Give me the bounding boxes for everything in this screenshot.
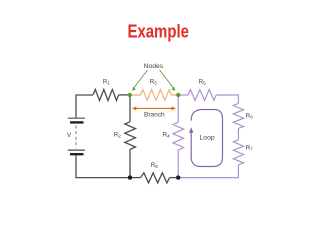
resistor R3 lead right xyxy=(171,94,178,96)
svg-text:Loop: Loop xyxy=(200,134,215,141)
svg-text:R8: R8 xyxy=(151,162,158,169)
resistor R7 (purple) xyxy=(233,140,243,165)
wire bottom rail right (purple) xyxy=(178,177,239,179)
resistor R6 (purple) xyxy=(233,103,243,128)
node A (green dot) xyxy=(128,93,132,97)
svg-text:Branch: Branch xyxy=(144,112,165,119)
wire node A bottom lead to R8 xyxy=(130,177,141,179)
svg-text:R3: R3 xyxy=(150,79,157,86)
battery V cell 1 plate thick xyxy=(70,121,84,123)
junction dot bottom-left xyxy=(128,175,132,179)
loop arrowhead xyxy=(189,127,193,133)
battery internal dashed link xyxy=(75,126,77,149)
svg-text:R5: R5 xyxy=(199,79,206,86)
svg-text:R6: R6 xyxy=(246,112,253,119)
branch arrow (orange, double-headed) xyxy=(135,107,172,109)
svg-text:Nodes: Nodes xyxy=(144,63,164,70)
wire node B vertical lower (purple, R4 to bottom rail) xyxy=(177,150,179,178)
wire middle vertical upper (node A to R2) xyxy=(129,95,131,122)
junction dot bottom-right xyxy=(176,175,180,179)
wire middle vertical lower (R2 to bottom rail) xyxy=(129,149,131,177)
svg-text:V: V xyxy=(67,132,72,139)
resistor R2 xyxy=(125,122,136,150)
node B (green dot) xyxy=(176,93,180,97)
resistor R5 (purple) xyxy=(188,90,216,101)
wire left vertical bottom (battery to bottom rail) xyxy=(75,155,77,178)
resistor R1 xyxy=(93,89,119,100)
wire R1 to node A xyxy=(119,94,130,96)
svg-text:R2: R2 xyxy=(114,132,121,139)
svg-text:Example: Example xyxy=(128,20,189,41)
wire left vertical top (to battery) xyxy=(75,95,77,118)
resistor R3 (orange) xyxy=(141,90,172,101)
svg-text:R1: R1 xyxy=(103,78,110,85)
resistor R8 xyxy=(141,173,170,183)
wire top-left horizontal (battery top to R1) xyxy=(76,94,93,96)
svg-text:R7: R7 xyxy=(246,145,253,152)
wire R8 to right junction xyxy=(170,177,179,179)
wire R5 to right corner (purple) xyxy=(216,94,238,96)
battery V cell 1 plate long xyxy=(68,117,85,119)
wire right vertical lower (purple) xyxy=(237,165,239,178)
resistor R3 (orange) lead left xyxy=(130,94,141,96)
battery V cell 2 plate thick xyxy=(70,153,84,155)
battery V cell 2 plate long xyxy=(68,149,85,151)
svg-text:R4: R4 xyxy=(163,132,170,139)
wire right vertical upper (purple) xyxy=(237,95,239,104)
wire bottom rail left xyxy=(76,177,131,179)
loop arrow (purple rounded loop) xyxy=(191,110,222,167)
wire right vertical middle (purple) xyxy=(237,128,239,139)
resistor R4 (purple) xyxy=(173,122,184,150)
wire node B vertical upper (purple, to R4) xyxy=(177,95,179,122)
nodes arrow left (green) xyxy=(134,70,148,88)
wire node B to R5 (purple) xyxy=(178,94,188,96)
nodes arrow right (green) xyxy=(160,70,174,88)
